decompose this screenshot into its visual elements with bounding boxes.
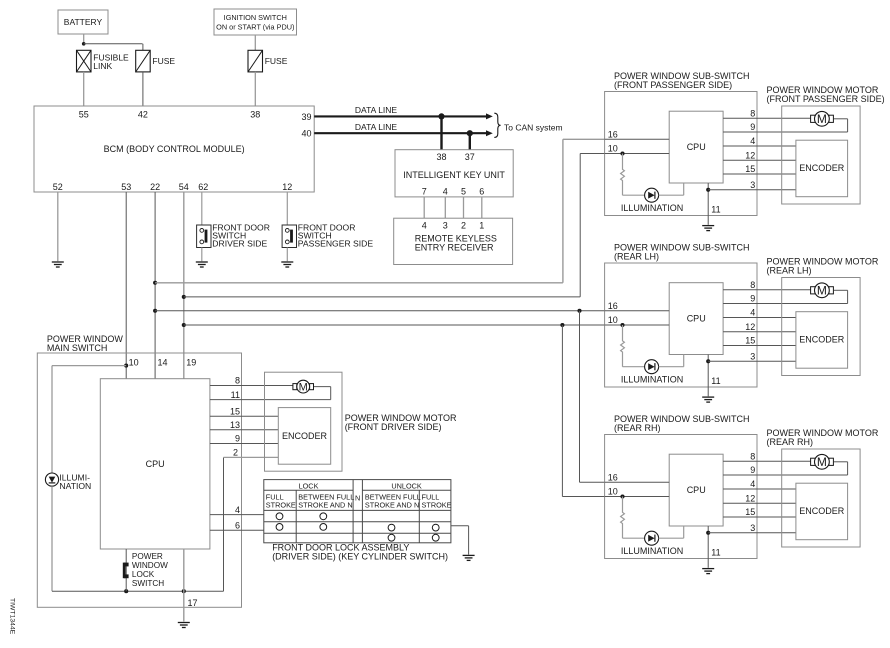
wire passenger door switch to ground (286, 248, 288, 262)
svg-text:3: 3 (750, 352, 755, 362)
svg-text:POWER: POWER (132, 552, 163, 561)
svg-text:(FRONT PASSENGER SIDE): (FRONT PASSENGER SIDE) (767, 94, 885, 104)
wire pin12 to encoder front passenger side (723, 159, 796, 161)
svg-text:9: 9 (750, 294, 755, 304)
wire CPU to lock switch (125, 549, 127, 591)
wire CPU pin11 to ground front passenger side (707, 183, 709, 225)
svg-text:17: 17 (188, 598, 198, 608)
wire BCM 22 to main switch pin 14 (154, 192, 156, 379)
wire pin 2 to encoder (224, 456, 279, 458)
wire pin15 to encoder rear LH (723, 345, 796, 347)
svg-text:4: 4 (750, 308, 755, 318)
svg-text:5: 5 (461, 186, 466, 196)
junction pin54 row2 (182, 295, 186, 299)
svg-text:8: 8 (750, 108, 755, 118)
svg-text:(FRONT PASSENGER SIDE): (FRONT PASSENGER SIDE) (614, 80, 732, 90)
svg-text:12: 12 (745, 322, 755, 332)
wire drop to rear RH sub-switch pin16 (579, 311, 581, 483)
wire row4 to rear LH sub-switch pin10 (184, 324, 605, 326)
wire LED down to return (51, 486, 53, 591)
svg-text:1: 1 (479, 220, 484, 230)
svg-text:DATA LINE: DATA LINE (355, 122, 398, 132)
wire pin10 front passenger side (605, 153, 670, 155)
wire pin10 rear LH (605, 324, 670, 326)
ground rear LH (702, 397, 714, 402)
return wire bottom (52, 590, 224, 592)
svg-text:M: M (817, 112, 827, 126)
svg-text:(REAR LH): (REAR LH) (767, 266, 812, 276)
junction pin3 front passenger side (706, 188, 710, 192)
ground main switch (178, 623, 190, 628)
svg-text:LOCK: LOCK (132, 570, 155, 579)
wire pin4 to encoder rear LH (723, 317, 796, 319)
power window lock switch (123, 563, 126, 579)
wire BCM 53 to main switch pin 10 (125, 192, 127, 379)
svg-text:15: 15 (745, 507, 755, 517)
junction row3 branch (577, 309, 581, 313)
svg-text:FUSE: FUSE (265, 56, 288, 66)
svg-text:3: 3 (750, 523, 755, 533)
wire into rear RH sub-switch pin10 (562, 496, 604, 498)
svg-text:WINDOW: WINDOW (132, 561, 168, 570)
junction pin22 row1 (153, 281, 157, 285)
svg-text:3: 3 (750, 180, 755, 190)
junction pin17 return (182, 589, 186, 593)
svg-text:42: 42 (138, 110, 148, 120)
wire BCM 62 to driver door switch (201, 192, 203, 225)
svg-text:4: 4 (422, 220, 427, 230)
svg-text:STROKE AND N: STROKE AND N (298, 501, 352, 510)
svg-text:LINK: LINK (93, 61, 112, 71)
svg-text:ENCODER: ENCODER (282, 431, 328, 441)
junction data line 2 (467, 130, 473, 136)
wire key cylinder to ground (451, 525, 469, 527)
motor box rear RH (782, 449, 860, 547)
brace to CAN (494, 113, 500, 137)
motor box front passenger side (782, 106, 860, 204)
encoder box rear LH (796, 312, 848, 369)
wire LED to CPU rear RH (659, 537, 684, 539)
svg-text:8: 8 (750, 280, 755, 290)
svg-text:37: 37 (465, 152, 475, 162)
svg-text:9: 9 (235, 434, 240, 444)
wire IKU4 to RKE3 (444, 197, 446, 218)
svg-text:40: 40 (301, 129, 311, 139)
resistor rear LH (621, 325, 625, 367)
main switch CPU box (100, 379, 210, 549)
svg-text:LOCK: LOCK (299, 481, 319, 490)
fuse F1 (136, 50, 151, 72)
illumination LED rear RH (645, 531, 659, 545)
svg-text:38: 38 (436, 152, 446, 162)
key cylinder switch contacts (276, 513, 283, 520)
svg-text:16: 16 (608, 129, 618, 139)
wire IKU5 to RKE2 (463, 197, 465, 218)
wire to LED rear LH (623, 366, 646, 368)
wire pin 4 to key cylinder switch (210, 514, 264, 516)
svg-text:2: 2 (461, 220, 466, 230)
wire pin3 to encoder front passenger side (708, 189, 796, 191)
motor M rear RH (811, 458, 815, 465)
wire LED to CPU rear LH (659, 366, 684, 368)
svg-text:CPU: CPU (687, 142, 706, 152)
resistor front passenger side (621, 154, 625, 196)
svg-text:15: 15 (745, 336, 755, 346)
wire data1 to IKU pin 38 (440, 116, 442, 149)
svg-text:8: 8 (235, 376, 240, 386)
ground passenger door switch (281, 262, 293, 267)
svg-text:8: 8 (750, 451, 755, 461)
svg-text:STROKE AND N: STROKE AND N (365, 501, 419, 510)
wire fuse to BCM pin 38 (254, 72, 256, 106)
svg-text:11: 11 (711, 204, 720, 214)
wire pin16 rear RH (605, 481, 670, 483)
wire pin12 to encoder rear RH (723, 502, 796, 504)
svg-text:ENCODER: ENCODER (799, 163, 845, 173)
svg-text:12: 12 (282, 182, 292, 192)
sub-switch CPU front passenger side (669, 111, 723, 183)
sub-switch box front passenger side (605, 92, 757, 216)
power window motor front driver box (265, 372, 343, 471)
wire pin 13 to encoder (210, 429, 278, 431)
wire node to fuse (84, 43, 143, 45)
wire down to fuse (142, 44, 144, 50)
svg-text:9: 9 (750, 122, 755, 132)
wire row1 to front passenger sub-switch (155, 282, 563, 284)
svg-text:11: 11 (231, 390, 240, 400)
wire pin 9 to encoder (210, 443, 278, 445)
sub-switch CPU rear LH (669, 283, 723, 355)
svg-text:STROKE: STROKE (266, 501, 296, 510)
svg-text:BCM (BODY CONTROL MODULE): BCM (BODY CONTROL MODULE) (104, 144, 245, 154)
svg-text:IGNITION SWITCH: IGNITION SWITCH (224, 13, 287, 22)
resistor rear RH (621, 497, 625, 539)
ground front passenger side (702, 226, 714, 231)
wire row2 to front passenger sub-switch (184, 296, 580, 298)
svg-text:16: 16 (608, 472, 618, 482)
wire fusible link to BCM pin 55 (83, 72, 85, 106)
svg-text:10: 10 (608, 487, 618, 497)
wire drop to rear RH sub-switch pin10 (561, 325, 563, 497)
svg-text:NATION: NATION (59, 481, 91, 491)
sub-switch CPU rear RH (669, 454, 723, 526)
svg-text:52: 52 (53, 182, 63, 192)
svg-text:4: 4 (235, 505, 240, 515)
svg-text:FUSE: FUSE (152, 56, 175, 66)
junction illumination rear LH (620, 323, 624, 327)
wire BCM 52 to ground (57, 192, 59, 261)
svg-text:PASSENGER SIDE: PASSENGER SIDE (298, 239, 374, 249)
svg-text:CPU: CPU (687, 485, 706, 495)
svg-text:STROKE: STROKE (422, 501, 452, 510)
wire to LED rear RH (623, 537, 646, 539)
wire pin4 to encoder front passenger side (723, 145, 796, 147)
svg-text:(REAR LH): (REAR LH) (614, 252, 659, 262)
svg-text:14: 14 (158, 357, 168, 367)
wire pin9 to motor front passenger side (723, 131, 848, 133)
svg-text:ENCODER: ENCODER (799, 335, 845, 345)
svg-text:16: 16 (608, 301, 618, 311)
junction illumination front passenger side (620, 151, 624, 155)
svg-text:10: 10 (129, 357, 139, 367)
illumination LED front passenger side (645, 188, 659, 202)
wire BCM 54 to main switch pin 19 (183, 192, 185, 379)
svg-text:ILLUMINATION: ILLUMINATION (621, 546, 683, 556)
wire LED to CPU front passenger side (659, 194, 684, 196)
wire pin3 to encoder rear RH (708, 532, 796, 534)
wire CPU pin11 to ground rear LH (707, 355, 709, 397)
wire pin16 rear LH (605, 310, 670, 312)
wire pin 15 to encoder (210, 415, 278, 417)
svg-text:DRIVER SIDE: DRIVER SIDE (212, 239, 267, 249)
illumination LED rear LH (645, 360, 659, 374)
svg-text:DATA LINE: DATA LINE (355, 105, 398, 115)
motor M front driver (293, 384, 297, 390)
junction illumination rear RH (620, 494, 624, 498)
svg-text:7: 7 (422, 186, 427, 196)
intelligent key unit box (395, 150, 513, 197)
svg-text:10: 10 (608, 144, 618, 154)
wire to LED front passenger side (623, 194, 646, 196)
wire ignition to fuse (254, 35, 256, 50)
encoder box front passenger side (796, 140, 848, 197)
svg-text:SWITCH: SWITCH (132, 579, 164, 588)
wire pin15 to encoder front passenger side (723, 173, 796, 175)
svg-text:ON or START (via PDU): ON or START (via PDU) (216, 22, 294, 31)
wire IKU6 to RKE1 (481, 197, 483, 218)
BCM box (34, 106, 314, 192)
sub-switch box rear RH (605, 435, 757, 559)
fuse F2 (248, 50, 263, 72)
svg-text:ILLUMINATION: ILLUMINATION (621, 203, 683, 213)
wire down to illumination LED (51, 366, 53, 474)
junction lock switch return (124, 589, 128, 593)
sub-switch box rear LH (605, 263, 757, 387)
wire battery to node (83, 34, 85, 44)
svg-text:4: 4 (750, 136, 755, 146)
junction pin10 illumination branch (124, 364, 128, 368)
ground key cylinder switch (463, 555, 475, 560)
svg-text:13: 13 (230, 420, 240, 430)
wire pin8 to motor front passenger side (723, 117, 811, 119)
wire BCM 12 to passenger door switch (286, 192, 288, 225)
illumination LED main switch (45, 473, 58, 486)
battery box (58, 10, 108, 34)
encoder box rear RH (796, 483, 848, 540)
wire into sub-switch1 pin16 (563, 138, 605, 140)
svg-text:9: 9 (750, 465, 755, 475)
wire IKU7 to RKE4 (423, 197, 425, 218)
wire pin 6 to key cylinder switch (210, 529, 264, 531)
remote keyless entry receiver box (394, 218, 513, 264)
svg-text:INTELLIGENT KEY UNIT: INTELLIGENT KEY UNIT (403, 170, 505, 180)
wire pin3 to encoder rear LH (708, 360, 796, 362)
encoder front driver box (278, 408, 330, 465)
motor box rear LH (782, 278, 860, 376)
wire riser to sub-switch1 pin10 (579, 154, 581, 297)
wire data2 to IKU pin 37 (469, 133, 471, 150)
svg-text:15: 15 (745, 164, 755, 174)
ignition switch box (214, 9, 297, 35)
svg-text:2: 2 (233, 448, 238, 458)
svg-text:UNLOCK: UNLOCK (391, 481, 422, 490)
svg-text:55: 55 (79, 110, 89, 120)
svg-text:12: 12 (745, 150, 755, 160)
wire CPU pin 17 to ground (183, 549, 185, 622)
wire pin16 front passenger side (605, 138, 670, 140)
svg-text:M: M (817, 284, 827, 298)
svg-text:(FRONT DRIVER SIDE): (FRONT DRIVER SIDE) (345, 422, 442, 432)
svg-text:(REAR RH): (REAR RH) (614, 423, 661, 433)
wire pin 11 to motor (210, 399, 331, 401)
wire into sub-switch1 pin10 (580, 153, 604, 155)
wire pin10 rear RH (605, 496, 670, 498)
wire pin8 to motor rear LH (723, 289, 811, 291)
wire row3 to rear LH sub-switch pin16 (155, 310, 604, 312)
svg-text:TIWT1344E: TIWT1344E (9, 598, 16, 635)
wire pin8 to motor rear RH (723, 460, 811, 462)
wire riser to sub-switch1 pin16 (562, 139, 564, 282)
wire driver door switch to ground (201, 248, 203, 262)
svg-text:22: 22 (150, 182, 160, 192)
svg-text:19: 19 (186, 357, 196, 367)
wire riser encoder return (223, 457, 225, 591)
wire CPU pin11 to ground rear RH (707, 526, 709, 568)
svg-text:BATTERY: BATTERY (64, 17, 103, 27)
wire pin15 to encoder rear RH (723, 516, 796, 518)
svg-text:6: 6 (235, 520, 240, 530)
svg-text:6: 6 (479, 186, 484, 196)
svg-text:11: 11 (711, 547, 720, 557)
svg-text:4: 4 (443, 186, 448, 196)
wire fuse to BCM pin 42 (142, 72, 144, 106)
svg-text:38: 38 (250, 110, 260, 120)
front door switch passenger side (282, 225, 296, 248)
svg-text:53: 53 (121, 182, 131, 192)
svg-text:11: 11 (711, 376, 720, 386)
wire pin9 to motor rear RH (723, 474, 848, 476)
key cylinder switch table (264, 480, 451, 543)
data line 1 (CAN H) (314, 115, 487, 117)
svg-text:3: 3 (443, 220, 448, 230)
junction row4 branch (560, 323, 564, 327)
junction pin3 rear RH (706, 531, 710, 535)
svg-text:M: M (817, 455, 827, 469)
svg-text:54: 54 (179, 182, 189, 192)
svg-text:CPU: CPU (146, 459, 165, 469)
svg-text:12: 12 (745, 493, 755, 503)
wire motor right link (314, 386, 331, 388)
svg-text:N: N (355, 493, 360, 502)
svg-text:MAIN SWITCH: MAIN SWITCH (47, 343, 108, 353)
wire pin4 to encoder rear RH (723, 488, 796, 490)
motor M front passenger side (811, 115, 815, 122)
front door switch driver side (197, 225, 211, 248)
wire into rear RH sub-switch pin16 (580, 481, 605, 483)
junction data line 1 (438, 113, 444, 119)
svg-text:ENTRY RECEIVER: ENTRY RECEIVER (415, 243, 494, 253)
wire to illumination (52, 365, 126, 367)
svg-text:10: 10 (608, 315, 618, 325)
data line 2 (CAN L) (314, 132, 487, 134)
ground BCM 52 (52, 262, 64, 267)
fusible link symbol (77, 50, 92, 72)
svg-text:15: 15 (230, 407, 240, 417)
ground driver door switch (196, 262, 208, 267)
wire motor right riser (330, 387, 332, 400)
junction pin22 row3 (153, 309, 157, 313)
svg-text:M: M (299, 382, 308, 394)
svg-text:CPU: CPU (687, 314, 706, 324)
junction pin54 row4 (182, 323, 186, 327)
svg-text:39: 39 (301, 112, 311, 122)
junction battery feed (82, 42, 86, 46)
svg-text:To CAN system: To CAN system (504, 122, 563, 132)
junction pin3 rear LH (706, 359, 710, 363)
wire pin12 to encoder rear LH (723, 331, 796, 333)
wire pin9 to motor rear LH (723, 303, 848, 305)
svg-text:ENCODER: ENCODER (799, 506, 845, 516)
motor M rear LH (811, 287, 815, 294)
ground rear RH (702, 569, 714, 574)
svg-text:(DRIVER SIDE) (KEY CYLINDER SW: (DRIVER SIDE) (KEY CYLINDER SWITCH) (272, 552, 448, 562)
svg-text:62: 62 (198, 182, 208, 192)
svg-text:ILLUMINATION: ILLUMINATION (621, 375, 683, 385)
svg-text:4: 4 (750, 479, 755, 489)
svg-text:(REAR RH): (REAR RH) (767, 437, 814, 447)
wire pin 8 to motor (210, 385, 293, 387)
main switch box (37, 353, 241, 607)
